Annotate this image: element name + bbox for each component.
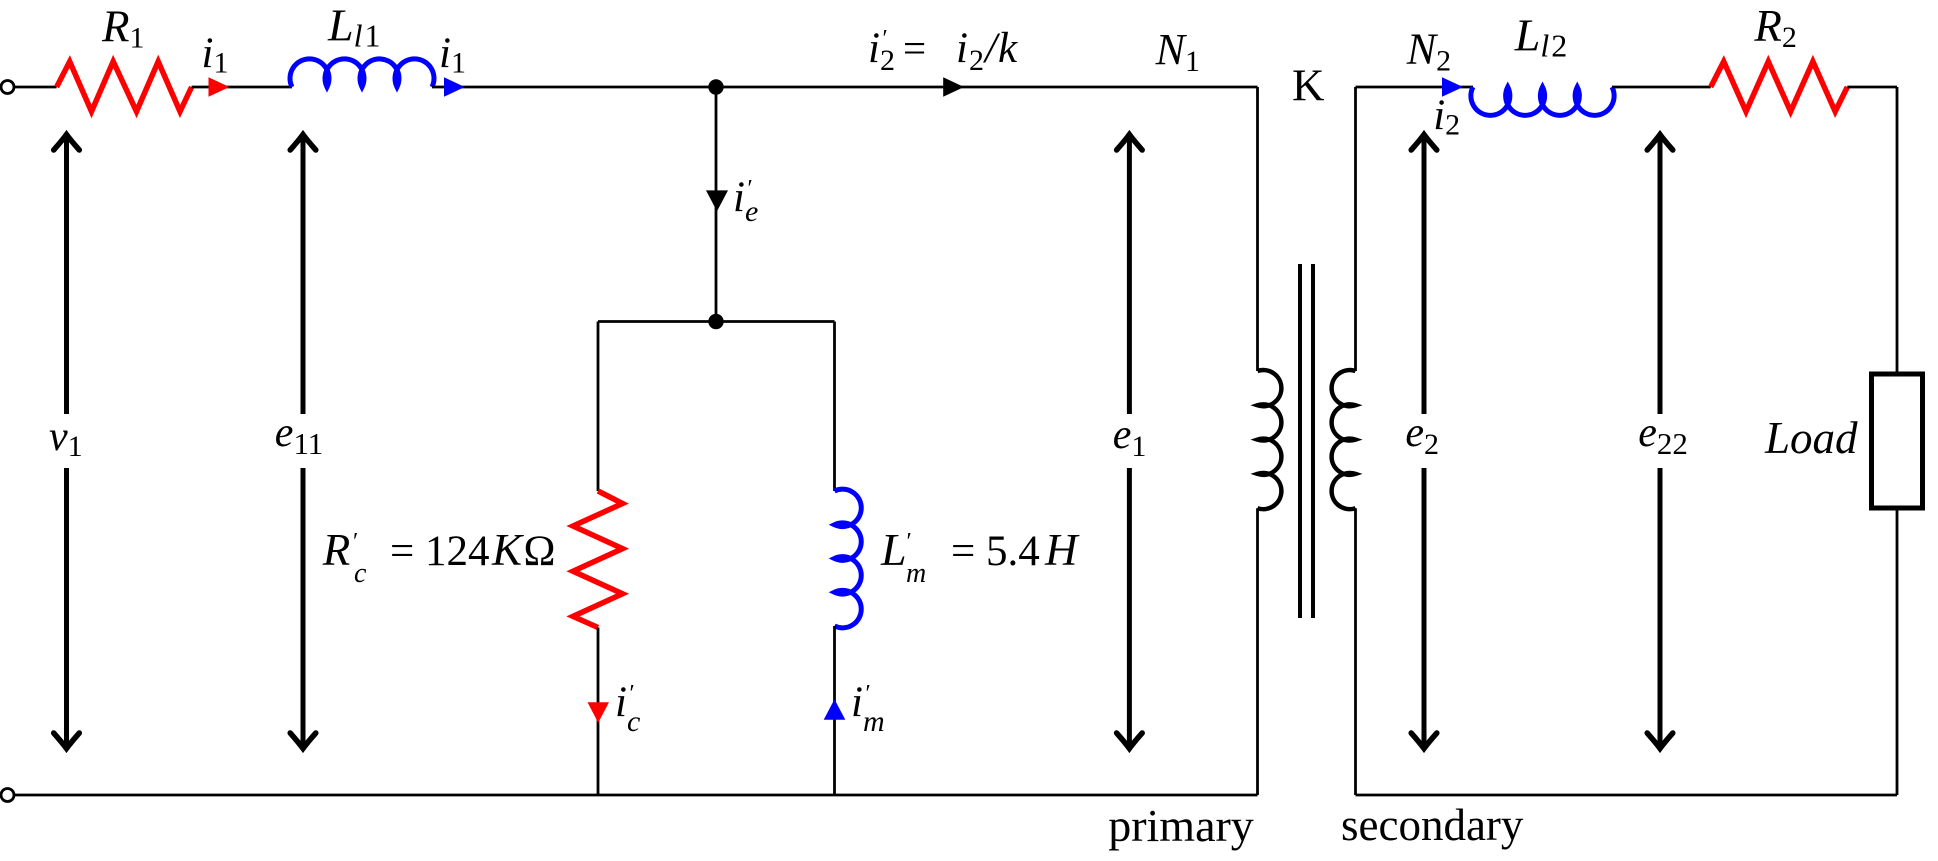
arrow i2 blue <box>1442 77 1463 97</box>
transformer secondary coil <box>1332 370 1356 509</box>
wire secondary left vertical upper <box>1354 87 1357 371</box>
node junction top <box>708 79 723 94</box>
resistor Rc prime <box>573 491 623 628</box>
svg-text:Load: Load <box>1764 413 1858 463</box>
wire shunt top bar <box>598 320 835 323</box>
wire load bottom <box>1896 508 1899 795</box>
arrow i2prime black <box>943 77 964 97</box>
svg-text:K: K <box>1292 60 1325 110</box>
inductor Ll2 <box>1471 87 1614 115</box>
transformer primary coil <box>1258 370 1282 509</box>
arrow i1 blue <box>444 77 465 97</box>
wire <box>1612 86 1711 89</box>
wire right shunt upper <box>833 322 836 492</box>
arrow ie prime black down <box>706 190 728 211</box>
wire <box>192 86 292 89</box>
arrow e1 double <box>1117 135 1143 749</box>
wire primary right vertical lower <box>1256 508 1259 795</box>
inductor Lm prime <box>835 489 862 628</box>
wire <box>14 86 57 89</box>
arrow e2 double <box>1411 135 1437 749</box>
svg-text:primary: primary <box>1108 800 1254 851</box>
node junction shunt <box>708 314 723 329</box>
wire primary right vertical upper <box>1256 87 1259 371</box>
inductor Ll1 <box>290 59 434 87</box>
wire <box>1847 86 1897 89</box>
wire secondary left vertical lower <box>1354 508 1357 795</box>
arrow ic prime red down <box>588 702 610 723</box>
arrow v1 double <box>54 135 80 749</box>
wire secondary top <box>1356 86 1474 89</box>
wire shunt vertical from junction <box>715 87 718 322</box>
terminal top-left <box>1 81 14 94</box>
terminal bottom-left <box>1 789 14 802</box>
resistor R1 <box>57 62 192 112</box>
resistor R2 <box>1711 62 1848 112</box>
arrow e11 double <box>290 135 316 749</box>
wire <box>432 86 1258 89</box>
wire load top <box>1896 87 1899 374</box>
transformer core <box>1300 264 1313 618</box>
wire bottom rail primary <box>14 794 1258 797</box>
wire left shunt lower <box>597 628 600 796</box>
svg-text:secondary: secondary <box>1341 800 1524 850</box>
wire left shunt upper <box>597 322 600 492</box>
wire right shunt lower <box>833 626 836 795</box>
arrow i1 red <box>209 77 230 97</box>
load resistor box <box>1872 374 1923 508</box>
arrow e22 double <box>1647 135 1673 749</box>
arrow im prime blue up <box>824 699 846 720</box>
wire bottom rail secondary <box>1356 794 1898 797</box>
